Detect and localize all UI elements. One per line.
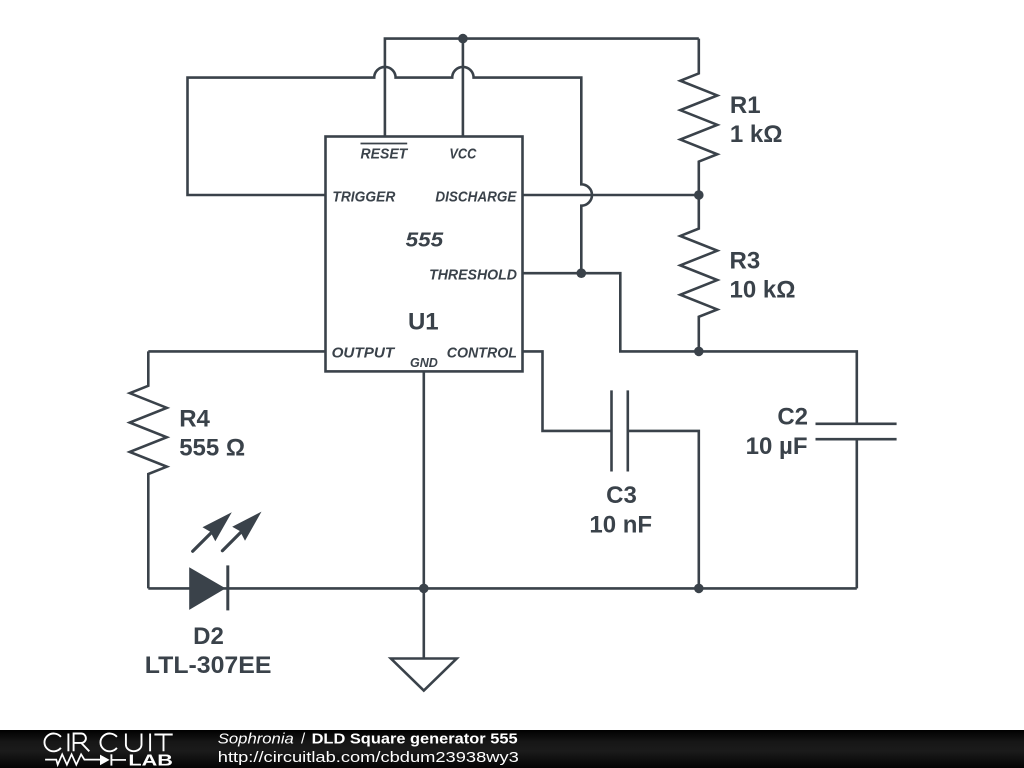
svg-text:D2: D2	[193, 623, 224, 650]
svg-text:GND: GND	[410, 355, 438, 370]
node: junction dot R3 bottom	[694, 347, 704, 357]
svg-text:Sophronia: Sophronia	[218, 731, 294, 748]
svg-text:R3: R3	[730, 247, 761, 274]
logo diode	[100, 755, 110, 766]
wire: CONTROL to C3	[523, 351, 612, 431]
svg-text:OUTPUT: OUTPUT	[332, 345, 396, 362]
RESET overline	[361, 143, 408, 145]
op-amp U1 555 timer box	[326, 137, 523, 372]
svg-text:VCC: VCC	[449, 146, 477, 163]
svg-text:10 µF: 10 µF	[746, 433, 808, 460]
node: junction dot on top rail at VCC	[458, 34, 468, 44]
capacitor C2	[816, 424, 897, 439]
LED D2 cathode bar	[226, 565, 229, 610]
svg-text:RESET: RESET	[361, 146, 409, 163]
capacitor C3	[612, 390, 628, 471]
svg-text:http://circuitlab.com/cbdum239: http://circuitlab.com/cbdum23938wy3	[218, 749, 519, 766]
resistor R1	[680, 39, 717, 195]
svg-text:R4: R4	[179, 406, 210, 433]
svg-text:555 Ω: 555 Ω	[179, 435, 245, 462]
wire: GND vertical	[422, 371, 425, 658]
LED arrow 2	[222, 512, 261, 551]
node: junction dot DISCHARGE/R1/R3	[694, 190, 704, 200]
resistor R4	[130, 351, 167, 588]
ground symbol	[391, 659, 457, 691]
svg-text:TRIGGER: TRIGGER	[332, 189, 395, 206]
wire: VCC top rail	[385, 39, 699, 137]
svg-text:DISCHARGE: DISCHARGE	[435, 189, 517, 206]
svg-text:R1: R1	[730, 92, 761, 119]
svg-text:CONTROL: CONTROL	[447, 345, 517, 362]
svg-text:10 kΩ: 10 kΩ	[730, 276, 796, 303]
svg-text:LAB: LAB	[128, 753, 173, 768]
wire: DISCHARGE to R1/R3 junction	[523, 194, 699, 197]
resistor R3	[680, 195, 717, 351]
node: junction dot GND on bottom rail	[419, 584, 429, 594]
wire: TRIGGER net (left loop with hops over RESET and VCC, hop over DISCHARGE wire)	[188, 67, 592, 273]
svg-text:DLD Square generator 555: DLD Square generator 555	[312, 731, 518, 748]
svg-text:10 nF: 10 nF	[589, 511, 652, 538]
node: junction dot C3 bottom	[694, 584, 704, 594]
svg-text:1 kΩ: 1 kΩ	[730, 121, 783, 148]
wire: THRESHOLD net to C2 top	[523, 273, 857, 424]
wire: C2 bottom lead	[855, 439, 858, 588]
svg-text:U1: U1	[408, 308, 439, 335]
node: junction dot THRESHOLD tap	[577, 268, 587, 278]
wire: OUTPUT to R4	[148, 350, 325, 353]
svg-text:555: 555	[406, 230, 444, 252]
LED D2 triangle	[189, 567, 225, 610]
svg-text:C2: C2	[777, 403, 808, 430]
wire: VCC pin vertical	[462, 39, 465, 137]
logo squiggle wire	[45, 754, 100, 764]
svg-text:C3: C3	[606, 482, 637, 509]
LED arrow 1	[193, 512, 232, 551]
wire: C3 right to bottom rail	[628, 431, 699, 589]
svg-text:THRESHOLD: THRESHOLD	[429, 266, 517, 283]
logo CIRCUIT (hand-drawn thin letters)	[44, 734, 172, 752]
wire: bottom rail	[148, 587, 857, 590]
svg-text:LTL-307EE: LTL-307EE	[145, 652, 272, 679]
